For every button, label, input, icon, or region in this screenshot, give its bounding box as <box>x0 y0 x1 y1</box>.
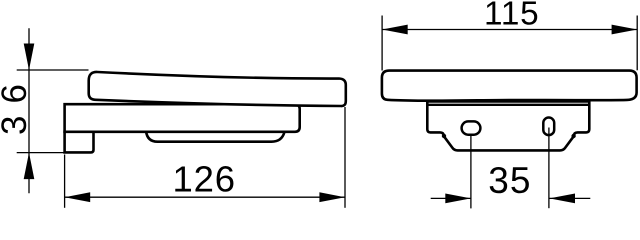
mounting slot left (front view) <box>462 121 481 134</box>
arrowhead 115 right <box>612 25 638 35</box>
soap dish bowl bottom (side view) <box>146 131 284 142</box>
arrowhead 35 right (pointing left) <box>549 194 575 204</box>
arrowhead 35 left (pointing right) <box>445 194 471 204</box>
dimension line 126 <box>65 196 345 198</box>
arrowhead 126 right <box>319 192 345 202</box>
wall bracket arm (side view) <box>65 104 300 132</box>
arrowhead 126 left <box>65 192 91 202</box>
extension line 115 right <box>636 16 638 71</box>
svg-text:126: 126 <box>173 158 236 199</box>
dimension line 115 <box>382 29 637 31</box>
extension line 35 right (from hole) <box>548 128 550 209</box>
wall mount foot (side view) <box>65 132 94 153</box>
dimension line 35 right tail <box>549 197 590 199</box>
bracket top edge line (front view) <box>428 104 589 106</box>
mounting hole right (front view) <box>543 118 554 136</box>
dimension line 35 left tail <box>431 197 471 199</box>
arrowhead 115 left <box>382 25 408 35</box>
svg-text:36: 36 <box>0 72 34 135</box>
dimension line 36 (continuous) <box>28 28 30 193</box>
extension line top (36 dim, at plate top) <box>17 69 89 71</box>
fillet blob right <box>571 134 575 138</box>
wall bracket (front view) <box>427 102 589 151</box>
svg-text:115: 115 <box>484 0 539 33</box>
crystal plate (side view) <box>89 72 346 106</box>
extension line 115 left <box>381 16 383 71</box>
fillet blob left <box>442 134 446 138</box>
extension line 126 left <box>64 155 66 208</box>
extension line 35 left (from slot) <box>470 134 472 208</box>
crystal dish (front view) <box>382 71 637 101</box>
arrowhead 36 bottom (pointing up) <box>24 153 35 180</box>
extension line 126 right <box>344 107 346 208</box>
arrowhead 36 top (pointing down) <box>24 44 35 71</box>
svg-text:35: 35 <box>488 160 531 201</box>
extension line bottom (36 dim, at foot bottom) <box>17 152 66 154</box>
